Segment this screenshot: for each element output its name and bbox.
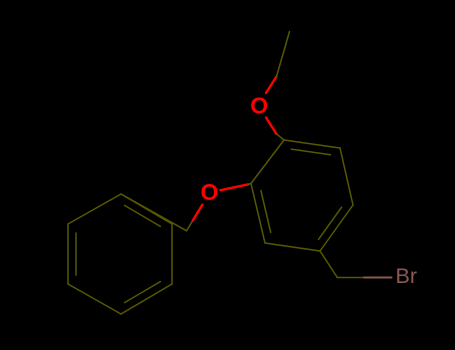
svg-text:Br: Br	[396, 264, 418, 288]
svg-text:O: O	[250, 93, 268, 119]
svg-text:O: O	[201, 179, 219, 205]
